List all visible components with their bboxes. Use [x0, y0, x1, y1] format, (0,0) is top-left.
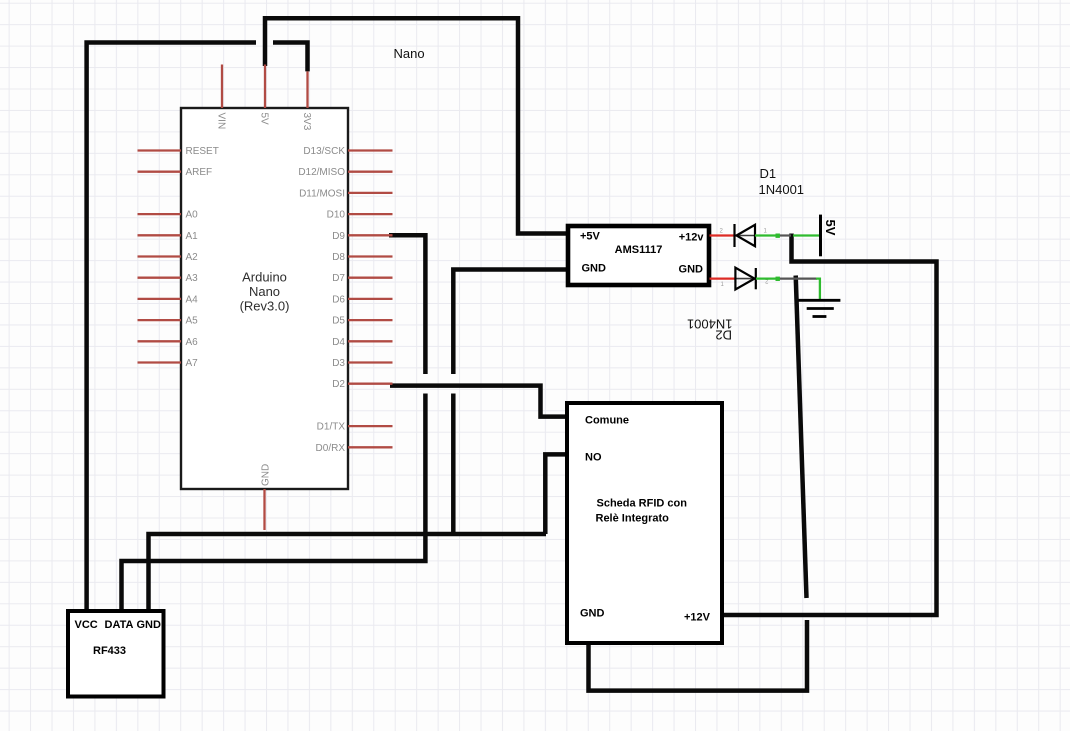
- svg-text:GND: GND: [582, 263, 607, 275]
- svg-text:GND: GND: [580, 608, 605, 620]
- svg-text:D12/MISO: D12/MISO: [298, 167, 345, 178]
- pin A6: [138, 337, 199, 348]
- pin D5: [332, 316, 392, 327]
- wire D2 node down (slanted): [796, 276, 807, 599]
- svg-text:D8: D8: [332, 252, 345, 263]
- svg-text:GND: GND: [137, 619, 162, 631]
- svg-text:A6: A6: [186, 337, 199, 348]
- wire D2 to relay Comune: [390, 386, 567, 417]
- red wire AMS +12v to D1 cathode: [710, 234, 737, 236]
- pin 3V3: [301, 71, 312, 130]
- pin RESET: [138, 146, 219, 157]
- svg-text:RESET: RESET: [186, 146, 219, 157]
- svg-text:Relè Integrato: Relè Integrato: [596, 513, 670, 525]
- diode D1: [735, 224, 757, 247]
- svg-text:A1: A1: [186, 231, 199, 242]
- green wire D2 cathode to earth ground: [756, 277, 820, 300]
- pin D13/SCK: [303, 146, 392, 157]
- svg-text:DATA: DATA: [105, 619, 134, 631]
- svg-text:D1: D1: [760, 166, 777, 181]
- pin D3: [332, 358, 392, 369]
- label D1 1N4001: [759, 166, 805, 197]
- svg-text:D13/SCK: D13/SCK: [303, 146, 345, 157]
- svg-text:1N4001: 1N4001: [759, 182, 805, 197]
- wire 3V3 pin to left rail down to RF433 VCC: [87, 43, 308, 612]
- pin number 1 (D1): [764, 229, 768, 235]
- svg-text:+12v: +12v: [679, 232, 705, 244]
- svg-text:D4: D4: [332, 337, 345, 348]
- arduino nano U1 body: [181, 108, 348, 489]
- pin D7: [332, 273, 392, 284]
- svg-text:5V: 5V: [258, 113, 269, 126]
- pin D2: [332, 379, 392, 390]
- wire D9 to RF433 DATA: [122, 235, 426, 611]
- green wire D1 anode to 5V bar: [755, 234, 821, 238]
- pin A5: [138, 316, 199, 327]
- svg-text:5V: 5V: [823, 220, 838, 236]
- pin D9: [332, 231, 392, 242]
- pin A4: [138, 294, 199, 305]
- pin D12/MISO: [298, 167, 392, 178]
- pin 5V: [258, 65, 269, 126]
- relay board U3 Scheda RFID: [567, 403, 722, 643]
- svg-text:A4: A4: [186, 294, 199, 305]
- label Nano: [394, 46, 425, 61]
- pin A7: [138, 358, 199, 369]
- svg-text:+12V: +12V: [684, 612, 711, 624]
- svg-text:Comune: Comune: [585, 415, 629, 427]
- label D2 1N4001 (rotated 180): [687, 317, 733, 343]
- svg-text:+5V: +5V: [580, 230, 601, 242]
- svg-text:D3: D3: [332, 358, 345, 369]
- svg-text:A0: A0: [186, 210, 199, 221]
- svg-text:A7: A7: [186, 358, 199, 369]
- svg-text:D11/MOSI: D11/MOSI: [299, 188, 345, 199]
- red wire AMS GND out to D2 anode: [710, 277, 737, 279]
- pin number 2 (D1): [720, 229, 724, 235]
- svg-text:3V3: 3V3: [301, 113, 312, 131]
- svg-text:D6: D6: [332, 294, 345, 305]
- pin A0: [138, 210, 199, 221]
- svg-text:D0/RX: D0/RX: [316, 443, 346, 454]
- pin number 1 (D2): [721, 282, 725, 288]
- power symbol 5V: [821, 215, 839, 257]
- pin A1: [138, 231, 199, 242]
- diode D2: [735, 268, 756, 290]
- svg-text:D2: D2: [715, 328, 732, 343]
- svg-text:A2: A2: [186, 252, 199, 263]
- svg-text:D5: D5: [332, 316, 345, 327]
- pin VIN: [215, 65, 226, 130]
- svg-text:Arduino: Arduino: [242, 270, 287, 285]
- pin number 2 (D2): [765, 278, 769, 284]
- pin D11/MOSI: [299, 188, 392, 199]
- svg-text:AMS1117: AMS1117: [615, 244, 663, 256]
- svg-text:GND: GND: [679, 263, 704, 275]
- RF module U4 RF433: [68, 611, 164, 697]
- earth ground symbol: [799, 300, 841, 316]
- svg-text:GND: GND: [261, 464, 272, 486]
- pin D0/RX: [316, 443, 393, 454]
- wire 5V pin to AMS1117 +5V input: [265, 18, 568, 233]
- svg-text:VCC: VCC: [75, 619, 98, 631]
- pin D6: [332, 294, 392, 305]
- pin GND bottom: [261, 464, 272, 530]
- svg-text:A5: A5: [186, 316, 199, 327]
- svg-text:VIN: VIN: [215, 113, 226, 130]
- svg-text:(Rev3.0): (Rev3.0): [240, 299, 290, 314]
- svg-text:A3: A3: [186, 273, 199, 284]
- svg-text:D10: D10: [327, 210, 346, 221]
- pin A3: [138, 273, 199, 284]
- wire AMS1117 GND to ground rail: [453, 270, 568, 535]
- svg-text:AREF: AREF: [186, 167, 213, 178]
- svg-text:Nano: Nano: [394, 46, 425, 61]
- wire relay GND loop to D2 node: [589, 620, 808, 691]
- svg-text:D2: D2: [332, 379, 345, 390]
- pin AREF: [138, 167, 213, 178]
- svg-text:Scheda RFID con: Scheda RFID con: [597, 498, 688, 510]
- pin A2: [138, 252, 199, 263]
- ground rail wire to RF433 GND: [149, 534, 547, 611]
- svg-text:D1/TX: D1/TX: [317, 422, 346, 433]
- pin D1/TX: [317, 422, 393, 433]
- pin D10: [327, 210, 393, 221]
- svg-text:RF433: RF433: [93, 645, 126, 657]
- svg-text:NO: NO: [585, 452, 602, 464]
- svg-text:Nano: Nano: [249, 284, 280, 299]
- regulator U2 AMS1117: [568, 226, 709, 285]
- pin D4: [332, 337, 392, 348]
- pin D8: [332, 252, 392, 263]
- svg-text:D9: D9: [332, 231, 345, 242]
- svg-text:D7: D7: [332, 273, 345, 284]
- wire D1 node to +12V rail to relay +12V: [722, 234, 937, 616]
- wire relay NO down to ground rail: [545, 454, 567, 534]
